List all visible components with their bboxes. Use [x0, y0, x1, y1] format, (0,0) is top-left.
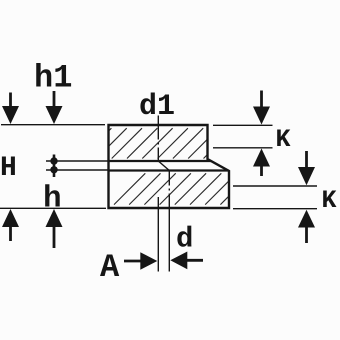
dimension line h bottom left: [0, 207, 106, 209]
arrow K upper down: [253, 91, 270, 125]
arrow K lower up: [298, 210, 315, 243]
hatching bottom band: [114, 173, 282, 204]
K upper dimension line 2: [213, 147, 273, 149]
H dimension extension line upper: [46, 160, 109, 162]
arrow K upper up: [253, 149, 270, 177]
K lower dimension line 1: [233, 185, 317, 187]
K upper dimension line 1: [213, 124, 273, 126]
svg-text:K: K: [276, 125, 291, 154]
arrow A left (points right at d1 axis): [124, 252, 157, 270]
arrow H up (bottom, x=10.5): [2, 209, 19, 241]
internal edge line upper: [109, 160, 212, 162]
arrow h1 down (top, x=54): [46, 91, 63, 124]
arrow A right (points left at d axis): [170, 252, 203, 270]
dimension line h1/H top left: [1, 124, 105, 126]
svg-text:d1: d1: [139, 90, 175, 124]
svg-text:h: h: [43, 182, 62, 217]
svg-text:K: K: [322, 186, 337, 215]
centerline d1 axis lower extension: [157, 197, 159, 272]
svg-text:d: d: [176, 223, 193, 256]
internal edge line lower: [109, 169, 229, 171]
svg-text:H: H: [0, 153, 17, 184]
K lower dimension line 2: [233, 208, 317, 210]
body outline: [109, 125, 230, 208]
H dimension extension line lower: [46, 169, 109, 171]
arrow H down (top, x=10.5): [2, 93, 19, 125]
svg-text:h1: h1: [34, 60, 72, 97]
hatching top band: [66, 128, 249, 158]
H dimension dot markers: [50, 155, 57, 178]
arrow h up (bottom, x=54): [46, 209, 63, 248]
centerline d axis: [168, 171, 170, 272]
centerline jog: [158, 161, 169, 171]
centerline d1 axis: [157, 116, 159, 162]
arrow K lower down: [298, 151, 315, 185]
svg-text:A: A: [100, 249, 120, 286]
